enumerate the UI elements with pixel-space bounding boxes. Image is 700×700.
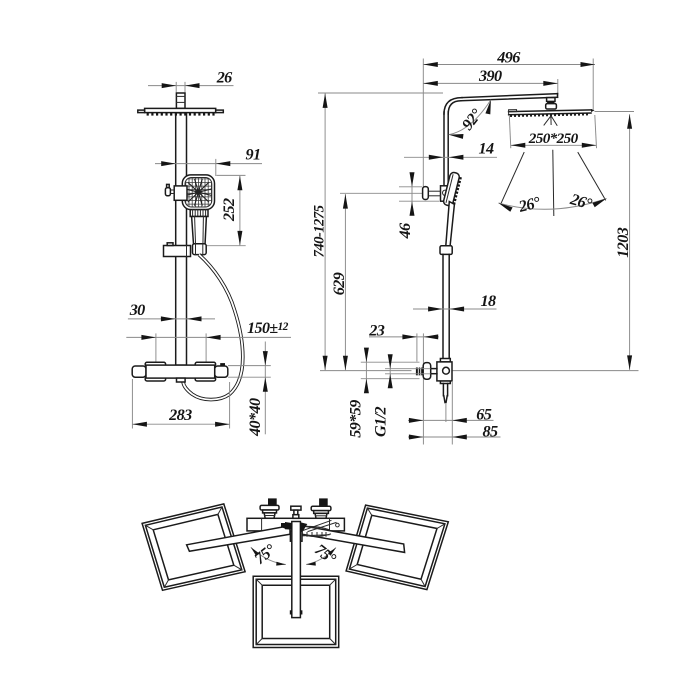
dimension 18 <box>413 292 497 312</box>
svg-text:26: 26 <box>216 69 233 87</box>
svg-text:1203: 1203 <box>614 227 632 257</box>
diverter valve block (side view) <box>437 359 452 384</box>
pivot collar on center arm <box>290 531 302 541</box>
hose nut (side view) <box>440 246 452 255</box>
dimension 40*40 <box>228 342 271 437</box>
diverter knob (side view) <box>416 363 437 380</box>
slide bracket with knob (front view) <box>165 184 187 200</box>
svg-text:740-1275: 740-1275 <box>312 204 328 257</box>
hand shower head (front view) <box>182 175 214 210</box>
svg-text:252: 252 <box>220 198 238 222</box>
mixer bar (top view) <box>247 518 344 531</box>
head connector nut (side view) <box>546 98 557 109</box>
handle end in holder (front view) <box>193 244 207 255</box>
svg-text:85: 85 <box>483 423 498 441</box>
slide bracket (side view) <box>423 186 449 201</box>
spray angle arc with arrows <box>499 199 607 212</box>
pivot joint (top view) <box>281 522 307 531</box>
dimension G1/2 <box>371 354 430 437</box>
outlet pipe with G1/2 tip <box>443 384 447 423</box>
left shower arm (top view) <box>187 526 290 552</box>
slider block / holder (front view) <box>164 243 191 257</box>
dimension 92 degrees <box>449 100 491 139</box>
right shower arm (top view) <box>302 526 405 553</box>
rotation escutcheon (top view) <box>297 521 337 537</box>
dimension 390 <box>423 67 558 96</box>
dimension 250*250 <box>509 115 596 148</box>
rotated head position left (top view) <box>142 504 245 590</box>
dimension 26 (top connector width) <box>148 69 234 93</box>
swivel joint under head <box>544 117 557 126</box>
svg-text:18: 18 <box>481 292 496 310</box>
spray cone lines <box>501 150 606 215</box>
head position center (top view) <box>253 576 339 647</box>
valve centerline <box>320 370 639 372</box>
dimension 1203 <box>595 112 635 370</box>
center diverter knob (top view) <box>291 506 301 518</box>
dimension 46 <box>396 172 439 239</box>
shower arm and riser bend (side view) <box>444 94 558 186</box>
dimension 14 <box>404 139 497 160</box>
right mixer handle (top view) <box>311 498 331 518</box>
dimension 496 <box>423 48 595 187</box>
dimension 59*59 <box>347 348 420 438</box>
svg-text:250*250: 250*250 <box>528 130 579 147</box>
left mixer handle (top view) <box>260 498 279 518</box>
75 degree arc right <box>306 541 340 569</box>
hose to valve (side view) <box>443 254 449 358</box>
dimension 30 <box>128 301 215 321</box>
svg-text:390: 390 <box>478 67 502 85</box>
shower hose (front view) <box>183 255 243 400</box>
dimension 85 <box>408 423 501 441</box>
svg-text:91: 91 <box>246 146 261 164</box>
dimension 629 <box>330 193 422 370</box>
dimension 740-1275 <box>312 93 444 370</box>
dimension 23 <box>368 322 439 362</box>
hand shower neck <box>190 210 208 217</box>
hand shower (side view) <box>443 172 463 246</box>
75 degree arc left <box>251 540 286 568</box>
riser pipe (front view) <box>176 113 187 365</box>
svg-text:14: 14 <box>479 139 494 157</box>
rain shower head (side view) <box>509 108 595 117</box>
wall extension line <box>422 333 424 444</box>
svg-text:65: 65 <box>476 406 491 424</box>
dimension 150 +/-12 <box>126 320 291 364</box>
svg-text:23: 23 <box>368 322 384 340</box>
svg-text:G1/2: G1/2 <box>371 407 389 437</box>
dimension 91 <box>155 146 262 177</box>
svg-text:40*40: 40*40 <box>246 398 264 437</box>
svg-text:30: 30 <box>129 301 145 319</box>
rotated head position right (top view) <box>346 505 448 589</box>
dimension 65 <box>408 382 494 445</box>
dimension 252 <box>205 175 246 245</box>
svg-text:46: 46 <box>396 222 414 239</box>
center arm (top view) <box>290 522 303 618</box>
svg-text:496: 496 <box>496 48 521 66</box>
svg-text:59*59: 59*59 <box>347 400 365 438</box>
svg-text:629: 629 <box>330 272 348 295</box>
rain shower head (front view) <box>138 108 224 115</box>
thermostatic mixer bar (front view) <box>132 362 228 382</box>
top connector above shower head <box>176 93 185 108</box>
hand shower handle (front view) <box>192 217 207 248</box>
dimension 283 <box>132 379 229 429</box>
svg-text:283: 283 <box>168 406 192 424</box>
